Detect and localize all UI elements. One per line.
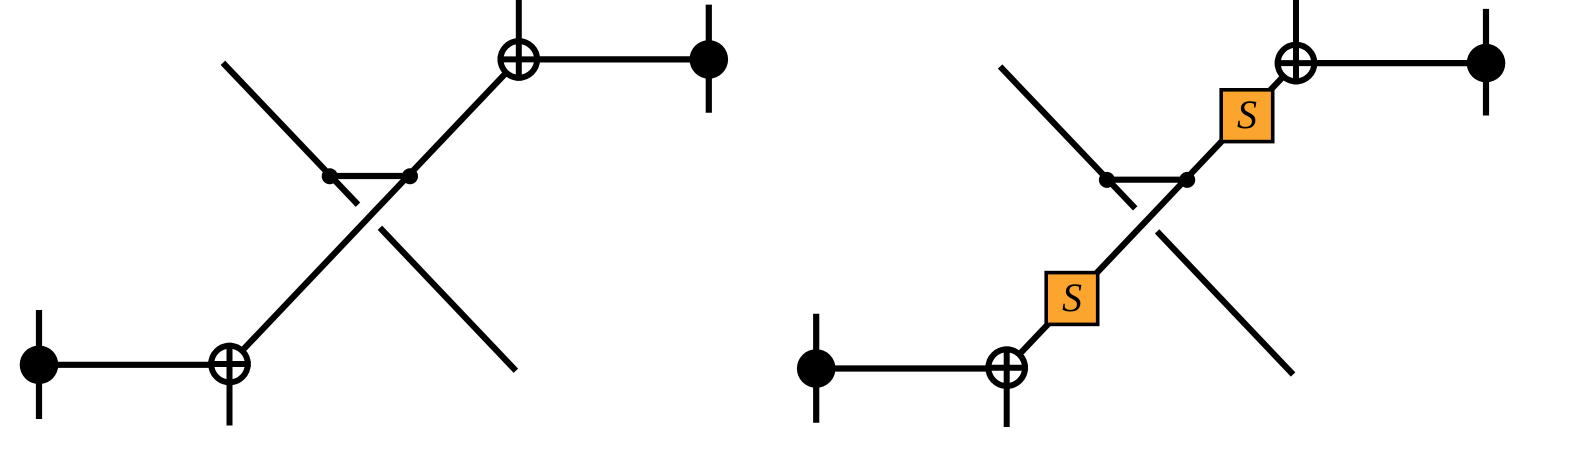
oplus: lower XOR node (right figure): [985, 346, 1028, 427]
oplus: lower XOR node (left figure): [208, 343, 251, 426]
oplus: upper XOR node (right figure): [1275, 0, 1318, 84]
wire: crossing line upper segment (right figure): [1000, 67, 1135, 209]
wire: vertical through bottom-left black node (left figure): [36, 310, 42, 419]
node: top-right black dot (left figure): [690, 40, 729, 79]
wire: bottom horizontal (left figure): [39, 362, 230, 368]
wire: top horizontal (right figure): [1296, 60, 1486, 66]
wire: main diagonal (left figure): [230, 59, 519, 364]
wire: top horizontal (left figure): [519, 56, 709, 62]
node: bottom-left black dot (right figure): [797, 349, 836, 388]
node: top-right black dot (right figure): [1467, 44, 1506, 83]
wire: crossing line upper segment (left figure): [223, 63, 358, 205]
gate box: upper S gate (right figure): [1221, 90, 1273, 142]
wire: crossing line lower segment (right figure): [1157, 231, 1293, 374]
oplus: upper XOR node (left figure): [498, 0, 541, 81]
wire: vertical through top-right black node (left figure): [706, 5, 712, 113]
wire: horizontal connector between junction dots (right figure): [1107, 177, 1187, 183]
svg-text:S: S: [1062, 275, 1082, 320]
node: right junction dot (left figure): [402, 168, 418, 184]
wire: vertical through top-right black node (right figure): [1483, 9, 1489, 116]
wire: bottom horizontal (right figure): [816, 365, 1007, 371]
wire: crossing line lower segment (left figure): [380, 228, 516, 371]
node: left junction dot (left figure): [322, 168, 338, 184]
svg-text:S: S: [1237, 92, 1257, 137]
wire: horizontal connector between junction dots (left figure): [330, 173, 410, 179]
wire: vertical through bottom-left black node (right figure): [813, 314, 819, 423]
node: right junction dot (right figure): [1179, 172, 1195, 188]
wire: main diagonal (right figure): [1007, 63, 1296, 368]
node: bottom-left black dot (left figure): [20, 346, 59, 385]
gate box: lower S gate (right figure): [1046, 273, 1098, 325]
node: left junction dot (right figure): [1099, 172, 1115, 188]
